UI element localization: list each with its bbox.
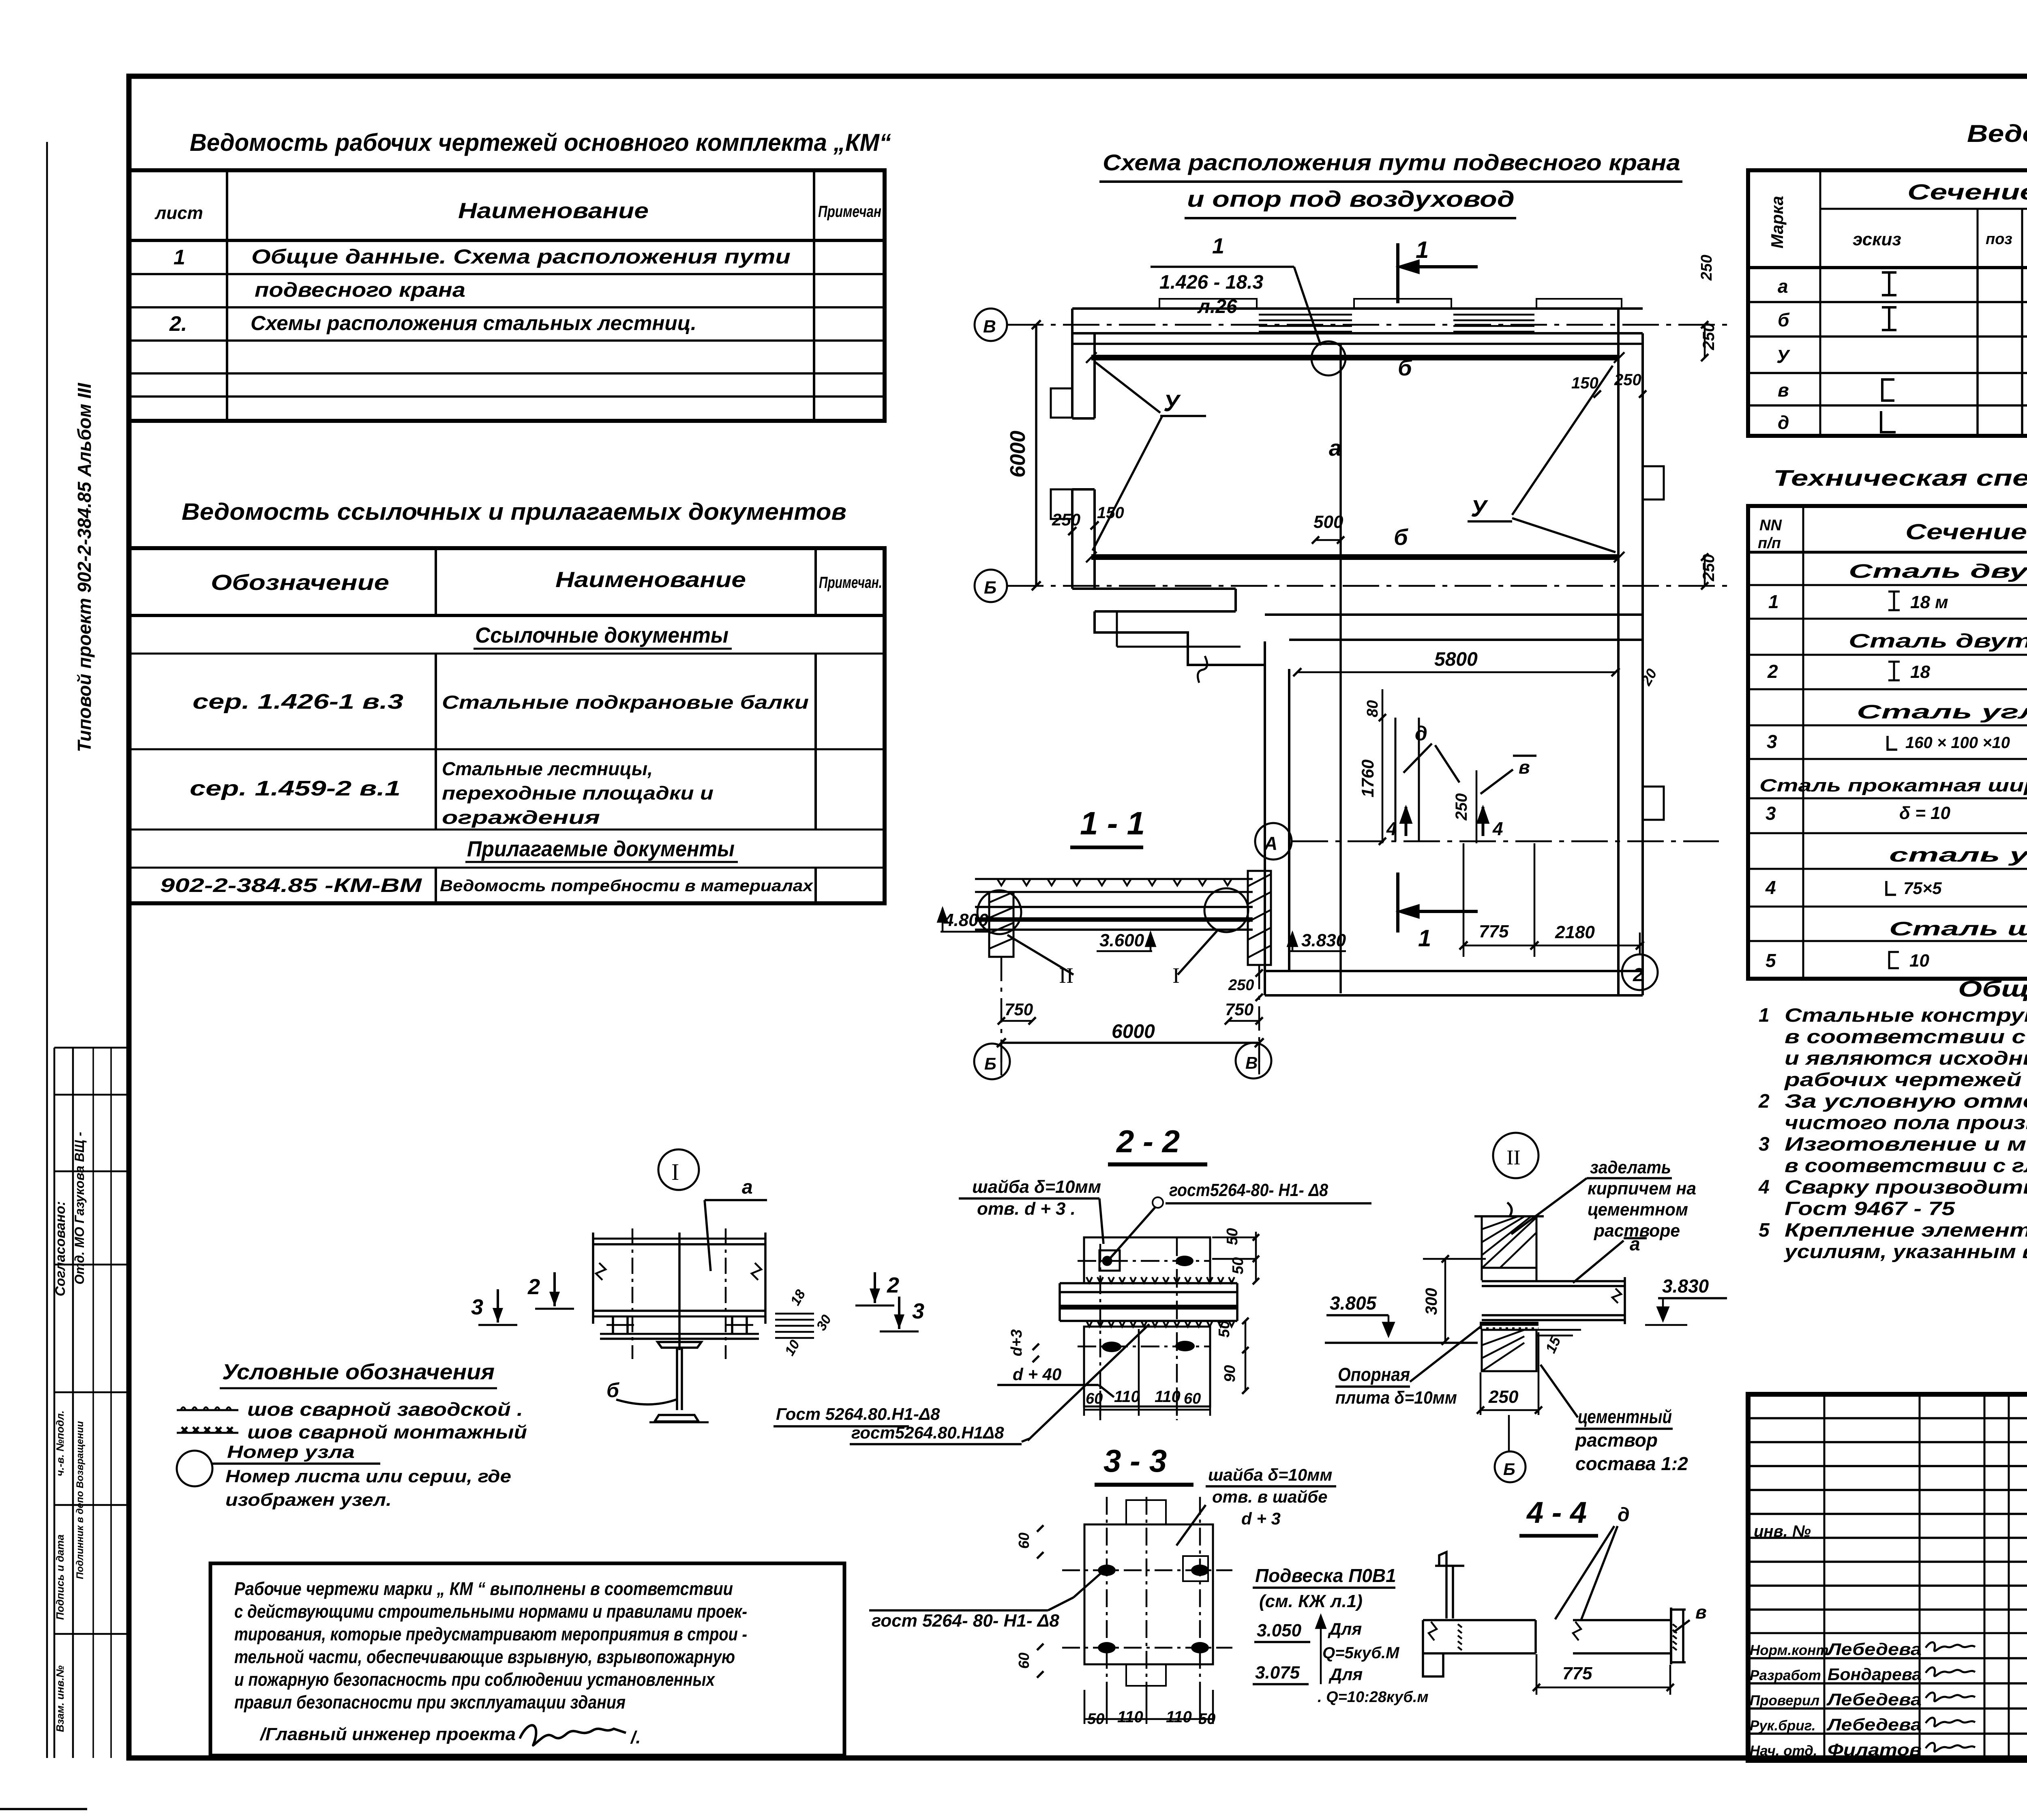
svg-text:Сечение: Сечение <box>1905 520 2027 544</box>
svg-text:лист: лист <box>154 203 203 223</box>
svg-text:Номер листа или серии, где: Номер листа или серии, где <box>225 1466 511 1486</box>
svg-text:б: б <box>1778 309 1790 330</box>
svg-text:Филатов: Филатов <box>1828 1740 1922 1759</box>
svg-text:Условные обозначения: Условные обозначения <box>222 1360 495 1384</box>
svg-text:д: д <box>1618 1504 1630 1526</box>
svg-text:3.830: 3.830 <box>1662 1276 1709 1297</box>
svg-text:3.805: 3.805 <box>1330 1293 1377 1314</box>
svg-text:отв. в шайбе: отв. в шайбе <box>1212 1487 1327 1506</box>
svg-text:18: 18 <box>1910 662 1930 682</box>
svg-text:У: У <box>1776 346 1791 367</box>
svg-text:б: б <box>1398 355 1412 380</box>
svg-text:300: 300 <box>1423 1288 1440 1315</box>
svg-text:тирования, которые предусматри: тирования, которые предусматривают мероп… <box>234 1624 747 1644</box>
svg-text:Сталь угловая: Сталь угловая Гост 8510 – 72* <box>1857 701 2027 723</box>
svg-text:Общие данные. Схема расположен: Общие данные. Схема расположения пути <box>251 245 791 268</box>
svg-text:Отд. МО Газукова ВЩ -: Отд. МО Газукова ВЩ - <box>72 1132 87 1285</box>
svg-text:Схема расположения пути подвес: Схема расположения пути подвесного крана <box>1103 150 1680 175</box>
svg-text:d+3: d+3 <box>1008 1329 1025 1357</box>
svg-text:правил безопасности при эксплу: правил безопасности при эксплуатации зда… <box>234 1692 626 1713</box>
svg-text:ограждения: ограждения <box>442 807 600 828</box>
svg-text:Сталь двутавровая Гост: Сталь двутавровая Гост 8239 - 72 <box>1849 630 2027 652</box>
svg-text:Стальные конструкции разработа: Стальные конструкции разработаны на стад… <box>1785 1004 2027 1026</box>
svg-text:У: У <box>1471 495 1488 522</box>
svg-text:гост5264-80- Н1- Δ8: гост5264-80- Н1- Δ8 <box>1169 1180 1328 1200</box>
svg-text:Сталь двутавровая Г: Сталь двутавровая Гост 19425 - 74 <box>1849 561 2027 582</box>
svg-text:д: д <box>1415 722 1427 745</box>
svg-text:Норм.конт: Норм.конт <box>1750 1642 1829 1658</box>
svg-text:Примечан.: Примечан. <box>819 574 882 592</box>
svg-text:Ссылочные документы: Ссылочные документы <box>475 623 729 647</box>
svg-text:б: б <box>1394 524 1408 550</box>
svg-text:гост 5264- 80- Н1- Δ8: гост 5264- 80- Н1- Δ8 <box>872 1611 1059 1631</box>
svg-text:сер. 1.459-2 в.1: сер. 1.459-2 в.1 <box>190 777 401 800</box>
svg-text:а: а <box>1778 276 1788 297</box>
svg-text:10: 10 <box>1909 951 1929 971</box>
svg-text:. Q=10:28куб.м: . Q=10:28куб.м <box>1318 1689 1429 1706</box>
svg-text:Взам. инв.№: Взам. инв.№ <box>54 1666 66 1732</box>
svg-text:Б: Б <box>984 1054 996 1073</box>
svg-text:п/п: п/п <box>1758 535 1781 552</box>
svg-text:60: 60 <box>1184 1390 1201 1407</box>
svg-text:рабочих чертежей на стадии: рабочих чертежей на стадии КМД <box>1783 1069 2027 1090</box>
svg-text:75×5: 75×5 <box>1903 879 1942 898</box>
svg-text:цементном: цементном <box>1588 1200 1688 1220</box>
svg-text:д: д <box>1778 412 1789 433</box>
svg-text:750: 750 <box>1005 1000 1033 1019</box>
svg-text:d + 3: d + 3 <box>1241 1509 1281 1528</box>
svg-text:Ведомость элементов: Ведомость элементов <box>1967 120 2027 147</box>
svg-text:в соответствии с главой СН: в соответствии с главой СНиП III - 18 - … <box>1785 1155 2027 1176</box>
svg-text:и пожарную безопасность при со: и пожарную безопасность при соблюдении у… <box>234 1669 716 1690</box>
svg-text:Подпись и дата: Подпись и дата <box>54 1535 66 1620</box>
svg-text:растворе: растворе <box>1594 1221 1680 1241</box>
svg-text:110: 110 <box>1166 1708 1192 1726</box>
svg-text:50: 50 <box>1198 1711 1215 1728</box>
svg-text:тельной части, обеспечивающие: тельной части, обеспечивающие взрывную, … <box>234 1646 735 1667</box>
svg-text:В: В <box>983 317 996 337</box>
svg-text:эскиз: эскиз <box>1853 229 1901 249</box>
svg-text:250: 250 <box>1488 1387 1519 1407</box>
svg-text:6000: 6000 <box>1112 1021 1155 1042</box>
svg-text:сталь угловая Гост 8509: сталь угловая Гост 8509 - 72* <box>1889 845 2027 866</box>
svg-text:Сварку производить электрод: Сварку производить электродами типа Э42А… <box>1785 1176 2027 1198</box>
svg-text:Крепление элементов выполня: Крепление элементов выполнять по расчетн… <box>1785 1219 2027 1241</box>
svg-text:подвесного крана: подвесного крана <box>255 279 465 301</box>
svg-text:3: 3 <box>471 1295 483 1319</box>
svg-text:инв. №: инв. № <box>1754 1522 1811 1540</box>
svg-text:поз: поз <box>1986 231 2012 248</box>
svg-text:2180: 2180 <box>1555 922 1595 942</box>
svg-text:Рук.бриг.: Рук.бриг. <box>1750 1718 1816 1734</box>
svg-text:2: 2 <box>887 1273 899 1297</box>
svg-text:шов сварной монтажный: шов сварной монтажный <box>247 1421 527 1443</box>
svg-text:Ведомость ссылочных и прилагае: Ведомость ссылочных и прилагаемых докуме… <box>182 499 846 525</box>
svg-text:5: 5 <box>1759 1220 1770 1241</box>
svg-text:Опорная: Опорная <box>1338 1364 1410 1385</box>
svg-text:250: 250 <box>1052 510 1080 529</box>
svg-text:4: 4 <box>1492 818 1503 839</box>
svg-text:150: 150 <box>1097 504 1124 522</box>
svg-text:6000: 6000 <box>1006 431 1030 478</box>
svg-text:5: 5 <box>1766 950 1776 971</box>
svg-text:3: 3 <box>912 1299 924 1323</box>
svg-text:2 - 2: 2 - 2 <box>1116 1123 1180 1159</box>
svg-text:Гост 9467 - 75: Гост 9467 - 75 <box>1785 1198 1955 1219</box>
svg-text:В: В <box>1245 1053 1258 1072</box>
svg-text:отв. d + 3 .: отв. d + 3 . <box>977 1199 1076 1219</box>
svg-text:775: 775 <box>1562 1664 1592 1683</box>
svg-text:Обозначение: Обозначение <box>211 570 389 595</box>
svg-text:Сечение: Сечение <box>1907 180 2027 204</box>
svg-text:Б: Б <box>984 578 996 598</box>
svg-text:усилиям, указанным в ведомос: усилиям, указанным в ведомости элементов… <box>1784 1241 2027 1262</box>
svg-text:Ведомость рабочих чертежей осн: Ведомость рабочих чертежей основного ком… <box>190 129 891 156</box>
svg-text:1760: 1760 <box>1358 759 1377 797</box>
svg-text:Проверил: Проверил <box>1750 1693 1819 1709</box>
svg-text:Нач. отд.: Нач. отд. <box>1750 1743 1817 1759</box>
svg-text:1: 1 <box>174 246 185 269</box>
svg-text:1: 1 <box>1212 234 1224 258</box>
svg-text:5800: 5800 <box>1434 649 1478 670</box>
svg-text:3: 3 <box>1766 803 1776 824</box>
svg-text:Разработ: Разработ <box>1750 1668 1821 1683</box>
svg-text:У: У <box>1163 390 1181 416</box>
svg-text:Общие указания: Общие указания <box>1958 976 2027 1001</box>
svg-text:Наименование: Наименование <box>555 568 746 592</box>
svg-text:шайба δ=10мм: шайба δ=10мм <box>972 1177 1101 1197</box>
svg-text:1: 1 <box>1759 1005 1770 1026</box>
svg-text:ч.-в. №подл.: ч.-в. №подл. <box>54 1411 66 1476</box>
svg-text:250: 250 <box>1228 977 1254 994</box>
svg-text:3: 3 <box>1759 1134 1770 1155</box>
svg-text:δ = 10: δ = 10 <box>1899 803 1950 823</box>
svg-text:и являются исходным материал: и являются исходным материалом для разра… <box>1785 1047 2027 1069</box>
svg-text:60: 60 <box>1086 1390 1103 1407</box>
svg-text:90: 90 <box>1221 1365 1238 1382</box>
svg-text:Марка: Марка <box>1768 196 1787 249</box>
svg-text:Лебедева: Лебедева <box>1826 1715 1922 1734</box>
svg-text:1: 1 <box>1418 925 1431 952</box>
svg-text:Стальные подкрановые балки: Стальные подкрановые балки <box>442 692 809 713</box>
svg-text:(см. КЖ л.1): (см. КЖ л.1) <box>1259 1591 1363 1611</box>
svg-text:Прилагаемые документы: Прилагаемые документы <box>467 837 735 861</box>
svg-text:3.075: 3.075 <box>1255 1663 1300 1683</box>
svg-text:775: 775 <box>1479 922 1509 941</box>
svg-text:110: 110 <box>1114 1388 1140 1406</box>
svg-text:60: 60 <box>1016 1653 1032 1669</box>
svg-text:2: 2 <box>1758 1091 1770 1112</box>
svg-text:Бондарева: Бондарева <box>1828 1665 1922 1684</box>
svg-text:4: 4 <box>1758 1177 1770 1198</box>
svg-text:2: 2 <box>527 1275 540 1299</box>
svg-text:160 × 100 ×10: 160 × 100 ×10 <box>1905 734 2010 752</box>
svg-text:раствор: раствор <box>1575 1430 1658 1451</box>
svg-text:2.: 2. <box>169 312 187 336</box>
svg-text:Сталь швеллерная Гост: Сталь швеллерная Гост 8240 - 72 <box>1889 918 2027 940</box>
svg-text:1: 1 <box>1768 591 1779 612</box>
svg-text:3.050: 3.050 <box>1257 1621 1302 1640</box>
svg-text:а: а <box>742 1177 753 1198</box>
svg-text:3 - 3: 3 - 3 <box>1103 1443 1167 1479</box>
svg-text:в: в <box>1778 379 1789 401</box>
svg-text:переходные площадки и: переходные площадки и <box>442 782 714 804</box>
svg-text:60: 60 <box>1016 1533 1032 1549</box>
svg-text:Лебедева: Лебедева <box>1826 1640 1922 1659</box>
svg-text:Б: Б <box>1503 1460 1515 1479</box>
svg-text:Примечан: Примечан <box>818 203 881 221</box>
svg-text:1 - 1: 1 - 1 <box>1080 805 1145 841</box>
svg-text:18 м: 18 м <box>1910 592 1948 612</box>
svg-text:с действующими строительными н: с действующими строительными нормами и п… <box>234 1601 747 1622</box>
svg-text:Техническая спецификация стали: Техническая спецификация стали на марки <box>1773 465 2027 491</box>
svg-text:и опор под воздуховод: и опор под воздуховод <box>1187 186 1515 212</box>
svg-text:500: 500 <box>1313 512 1343 532</box>
svg-text:состава 1:2: состава 1:2 <box>1575 1453 1688 1474</box>
svg-text:50: 50 <box>1087 1711 1104 1728</box>
svg-text:Рабочие чертежи марки „ КМ “: Рабочие чертежи марки „ КМ “ выполнены в… <box>234 1578 733 1599</box>
svg-text:заделать: заделать <box>1590 1158 1671 1177</box>
svg-text:Стальные лестницы,: Стальные лестницы, <box>442 758 653 779</box>
svg-text:Типовой проект 902-2-384.85: Типовой проект 902-2-384.85 Альбом III <box>74 383 95 752</box>
svg-text:в соответствии с главами СНи: в соответствии с главами СНиП II-В. 3 - … <box>1785 1026 2027 1047</box>
svg-text:250: 250 <box>1614 371 1641 389</box>
svg-text:250: 250 <box>1698 255 1715 281</box>
svg-text:4: 4 <box>1765 877 1776 898</box>
svg-text:110: 110 <box>1117 1708 1143 1726</box>
svg-text:в: в <box>1519 757 1530 778</box>
svg-text:За условную отметку 0.000: За условную отметку 0.000 принят уровень <box>1785 1090 2027 1112</box>
svg-text:Гост 5264.80.Н1-Δ8: Гост 5264.80.Н1-Δ8 <box>776 1404 940 1423</box>
svg-text:Лебедева: Лебедева <box>1826 1690 1922 1709</box>
svg-text:чистого пола производственно: чистого пола производственного помещения <box>1785 1112 2027 1133</box>
svg-text:I: I <box>1172 963 1180 988</box>
svg-text:Номер узла: Номер узла <box>227 1442 355 1462</box>
svg-text:Q=5куб.М: Q=5куб.М <box>1322 1644 1400 1662</box>
svg-text:шов сварной заводской .: шов сварной заводской . <box>247 1399 523 1420</box>
svg-text:4 - 4: 4 - 4 <box>1526 1496 1587 1529</box>
svg-text:3: 3 <box>1767 731 1777 752</box>
svg-text:4.800: 4.800 <box>943 910 989 930</box>
svg-text:цементный: цементный <box>1578 1406 1672 1427</box>
svg-text:в: в <box>1695 1601 1707 1623</box>
svg-text:кирпичем на: кирпичем на <box>1588 1179 1696 1198</box>
svg-text:1.426 - 18.3: 1.426 - 18.3 <box>1159 272 1264 293</box>
svg-text:Согласовано:: Согласовано: <box>53 1201 68 1297</box>
svg-text:Сталь прокатная широкополосн: Сталь прокатная широкополосная универсал… <box>1759 776 2027 795</box>
svg-text:I: I <box>671 1159 679 1185</box>
svg-text:Изготовление и монтаж конст: Изготовление и монтаж конструкций произв… <box>1785 1133 2027 1155</box>
svg-text:80: 80 <box>1364 700 1381 717</box>
svg-text:2: 2 <box>1767 661 1778 682</box>
svg-text:/Главный инженер проекта: /Главный инженер проекта <box>259 1724 516 1744</box>
svg-text:750: 750 <box>1225 1000 1253 1019</box>
svg-text:3.830: 3.830 <box>1301 930 1346 950</box>
svg-text:1: 1 <box>1416 237 1429 263</box>
svg-text:изображен узел.: изображен узел. <box>225 1490 392 1510</box>
svg-text:4: 4 <box>1386 818 1397 839</box>
svg-text:Для: Для <box>1328 1619 1362 1638</box>
svg-text:Наименование: Наименование <box>458 199 649 223</box>
svg-text:50: 50 <box>1216 1321 1233 1338</box>
svg-text:110: 110 <box>1155 1388 1181 1406</box>
svg-text:шайба δ=10мм: шайба δ=10мм <box>1208 1465 1332 1484</box>
svg-text:NN: NN <box>1759 517 1782 534</box>
svg-text:250: 250 <box>1453 793 1470 821</box>
svg-text:/.: /. <box>630 1728 641 1747</box>
svg-text:Подлинник в депо Возвращении: Подлинник в депо Возвращении <box>75 1421 86 1579</box>
svg-text:Ведомость потребности в матери: Ведомость потребности в материалах <box>440 877 814 895</box>
svg-text:d + 40: d + 40 <box>1013 1365 1061 1384</box>
svg-text:150: 150 <box>1571 374 1598 392</box>
svg-text:б: б <box>606 1379 620 1402</box>
svg-text:3.600: 3.600 <box>1099 930 1144 950</box>
svg-text:II: II <box>1506 1146 1521 1169</box>
svg-text:902-2-384.85 -КМ-ВМ: 902-2-384.85 -КМ-ВМ <box>160 875 422 896</box>
svg-text:Для: Для <box>1328 1665 1363 1684</box>
svg-text:Подвеска П0В1: Подвеска П0В1 <box>1255 1565 1396 1586</box>
svg-text:плита δ=10мм: плита δ=10мм <box>1335 1388 1457 1408</box>
svg-text:Схемы расположения стальных ле: Схемы расположения стальных лестниц. <box>251 312 696 334</box>
svg-text:сер. 1.426-1 в.3: сер. 1.426-1 в.3 <box>193 690 403 714</box>
